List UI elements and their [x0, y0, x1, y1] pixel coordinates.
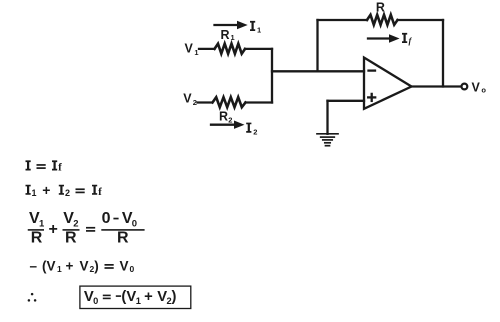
svg-text:o: o [481, 85, 486, 94]
equation line 3: V1/R + V2/R = (0 - V0)/R [28, 210, 145, 246]
wire: V1 input lead [199, 48, 215, 50]
current arrow I2 [211, 121, 245, 129]
svg-text:f: f [98, 186, 102, 198]
output terminal node [462, 84, 468, 90]
svg-text:(V: (V [42, 258, 56, 273]
label I2 [246, 123, 257, 137]
wire: R2 to junction [246, 101, 273, 103]
node V0 label [472, 80, 487, 94]
op-amp non-inverting pin mark [368, 94, 375, 101]
label I1 [250, 21, 261, 35]
svg-text:2: 2 [193, 98, 197, 107]
label R (feedback) [376, 1, 385, 15]
wire: feedback top left segment [318, 19, 368, 21]
svg-text:0: 0 [102, 210, 111, 227]
ground [317, 101, 338, 146]
svg-text:0: 0 [132, 218, 137, 229]
resistor R2 [213, 97, 246, 107]
svg-text:V: V [120, 258, 129, 273]
svg-text:1: 1 [57, 264, 62, 274]
op-amp U1 [364, 58, 412, 109]
svg-text:R: R [65, 230, 77, 247]
svg-text:f: f [58, 162, 62, 174]
wire: feedback top right segment [398, 19, 444, 21]
current arrow If [368, 34, 400, 42]
svg-text:–: – [30, 258, 38, 273]
wire: non-inverting input [328, 100, 365, 102]
svg-text:0: 0 [93, 296, 98, 306]
svg-text:R: R [219, 110, 228, 124]
svg-text:R: R [117, 230, 129, 247]
resistor R1 [215, 44, 246, 54]
equation line 4: -(V1 + V2) = V0 [30, 258, 135, 273]
svg-text:2: 2 [73, 218, 78, 229]
op-amp inverting pin mark [369, 69, 376, 71]
svg-text:1: 1 [39, 218, 45, 229]
svg-text:R: R [221, 28, 230, 42]
wire: summing junction vertical [271, 49, 273, 103]
node V1 label [185, 41, 199, 57]
label R2 [219, 110, 232, 125]
svg-text:V: V [183, 92, 192, 106]
svg-text:+: + [42, 182, 50, 198]
wire: V2 input lead [198, 101, 213, 103]
wire: junction to op-amp inverting input [272, 70, 364, 72]
svg-text:1: 1 [32, 188, 37, 198]
wire: feedback tap vertical [316, 20, 318, 71]
svg-text:R: R [31, 230, 43, 247]
svg-text:V: V [80, 258, 89, 273]
therefore symbol [28, 293, 37, 302]
current arrow I1 [215, 21, 248, 29]
svg-text:1: 1 [257, 26, 261, 35]
svg-text:1: 1 [136, 296, 141, 306]
wire: R1 to junction [245, 48, 272, 50]
boxed result V0 = -(V1+V2) [80, 286, 191, 308]
wire: op-amp output [412, 85, 462, 87]
svg-text:): ) [172, 289, 177, 305]
svg-text:2: 2 [253, 127, 257, 136]
node V2 label [183, 92, 197, 107]
svg-text:+: + [66, 258, 74, 273]
label If [402, 33, 413, 46]
equation line 2: I1 + I2 = If [26, 182, 103, 198]
svg-text:2: 2 [228, 115, 232, 124]
svg-text:): ) [94, 258, 99, 273]
svg-text:V: V [472, 80, 481, 94]
svg-text:V: V [185, 41, 194, 55]
svg-text:0: 0 [130, 264, 135, 274]
equation line 1: I = If [26, 160, 63, 173]
resistor R (feedback) [367, 15, 398, 25]
svg-text:2: 2 [65, 188, 70, 198]
label R1 [221, 28, 235, 42]
svg-text:+: + [49, 221, 58, 238]
svg-text:R: R [376, 1, 385, 15]
wire: feedback right vertical [442, 20, 444, 87]
svg-text:1: 1 [231, 33, 235, 42]
svg-text:+: + [144, 289, 153, 305]
